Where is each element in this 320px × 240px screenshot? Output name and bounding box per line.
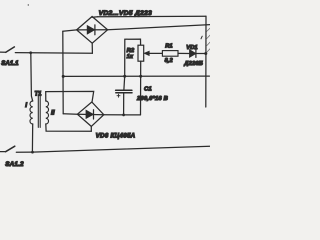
svg-text:1к: 1к bbox=[127, 54, 134, 60]
svg-text:VD1: VD1 bbox=[186, 45, 197, 51]
svg-text:200,0*16 В: 200,0*16 В bbox=[136, 96, 168, 102]
transformer T1 secondary winding II bbox=[46, 101, 49, 124]
node junction C1 branch bbox=[123, 75, 126, 78]
wire pot bottom vertical to plus line bbox=[140, 61, 142, 115]
potentiometer R2 body bbox=[138, 45, 144, 61]
capacitor C1 polarity plus bbox=[117, 94, 120, 97]
speck artifact bbox=[28, 4, 29, 5]
hatch marks page cut bbox=[207, 28, 210, 52]
wire bridge VD2-VD5 bottom stub to mains rail bbox=[91, 43, 93, 53]
diode VD1 bbox=[190, 50, 196, 58]
wire VD6 bottom stub bbox=[90, 126, 92, 131]
wire R1 to VD1 bbox=[178, 52, 190, 54]
potentiometer R2 wiper arrow bbox=[144, 51, 149, 55]
wire bridge VD2-VD5 left corner to left vertical bbox=[63, 30, 77, 31]
transformer T1 primary winding I bbox=[30, 101, 33, 124]
bridge rectifier VD6 bbox=[77, 102, 103, 126]
wire bottom rail bbox=[33, 146, 211, 152]
tick mark bbox=[201, 36, 202, 39]
svg-text:II: II bbox=[51, 110, 55, 117]
node junction left bus mid rail bbox=[62, 75, 65, 78]
capacitor C1 bottom lead bbox=[123, 93, 125, 115]
wire label flag diagonal bbox=[92, 16, 98, 19]
wire secondary bottom lead bbox=[46, 124, 92, 131]
node junction T1 primary top bbox=[29, 51, 32, 54]
node junction right bus bbox=[204, 52, 207, 55]
wire label underline bbox=[98, 15, 206, 18]
wire link to VD6 left corner bbox=[63, 113, 77, 115]
svg-text:C1: C1 bbox=[144, 87, 152, 93]
switch SA1.1 bbox=[0, 47, 31, 53]
bridge rectifier VD2...VD5 bbox=[77, 17, 108, 44]
node junction C1 bottom bbox=[122, 114, 125, 117]
wire left vertical bus bbox=[62, 31, 64, 114]
node junction pot bottom branch bbox=[139, 75, 142, 78]
svg-text:I: I bbox=[25, 102, 27, 109]
wire mid rail bbox=[63, 75, 209, 77]
svg-text:Д226Б: Д226Б bbox=[183, 61, 203, 67]
wire VD6 right corner line bbox=[104, 114, 141, 116]
transformer T1 core bbox=[38, 96, 40, 128]
node junction T1 primary bottom bbox=[31, 151, 34, 154]
svg-text:R2: R2 bbox=[127, 48, 135, 54]
wire bridge VD2-VD5 right corner to right edge bbox=[108, 25, 210, 30]
svg-text:SA1.1: SA1.1 bbox=[1, 61, 19, 67]
transformer T1 primary winding I lead top bbox=[31, 53, 33, 101]
capacitor C1 bbox=[116, 90, 132, 93]
svg-text:VD6 КЦ405А: VD6 КЦ405А bbox=[96, 133, 136, 140]
potentiometer R2 loop top wire bbox=[125, 39, 141, 76]
wire VD1 to right bus bbox=[196, 53, 206, 55]
wire mains top rail to bridge bbox=[31, 52, 93, 54]
svg-text:SA1.2: SA1.2 bbox=[5, 161, 24, 168]
wire right vertical edge bus bbox=[205, 16, 207, 107]
wire secondary top lead bbox=[46, 91, 94, 102]
switch SA1.2 bbox=[0, 146, 33, 152]
wire wiper to R1 bbox=[149, 52, 163, 54]
svg-text:R1: R1 bbox=[165, 43, 172, 49]
svg-text:8,2: 8,2 bbox=[165, 58, 174, 64]
capacitor C1 top lead bbox=[123, 76, 126, 89]
svg-text:T1: T1 bbox=[35, 91, 43, 97]
transformer T1 primary winding I lead bottom bbox=[31, 124, 33, 152]
svg-text:VD2...VD5 Д223: VD2...VD5 Д223 bbox=[99, 10, 152, 17]
resistor R1 bbox=[162, 51, 178, 57]
